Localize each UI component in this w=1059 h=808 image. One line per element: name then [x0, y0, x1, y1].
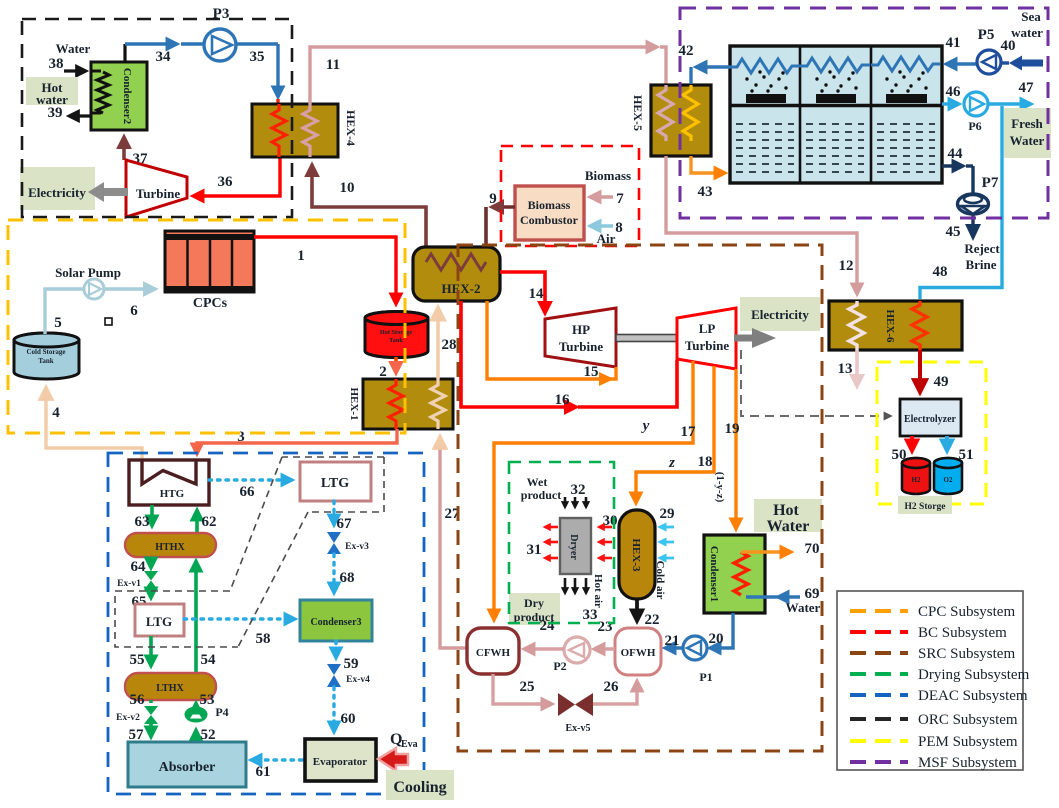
feedwater heater OFWH: [615, 628, 661, 675]
wire 59 + valve Ex-v4: [327, 641, 370, 687]
svg-text:15: 15: [584, 364, 599, 380]
svg-text:water: water: [1011, 25, 1043, 40]
svg-text:29: 29: [660, 506, 675, 522]
svg-text:56: 56: [130, 692, 146, 708]
condenser Condenser2: [91, 44, 147, 130]
svg-text:H2 Storge: H2 Storge: [905, 502, 946, 512]
CPCs collector: [165, 231, 254, 311]
dry product arrows (3 down): [565, 578, 598, 623]
svg-text:Dryer: Dryer: [568, 534, 579, 560]
svg-text:5: 5: [54, 315, 62, 331]
condenser Condenser1: [704, 535, 765, 613]
svg-text:43: 43: [698, 184, 713, 200]
wire 9 (combustor to HEX-2): [486, 191, 515, 260]
wire 25 (CFWH to Ex-v5): [493, 674, 551, 704]
QEva arrow: [378, 731, 418, 771]
wire 16 (HEX-2 to LP turbine): [461, 301, 677, 408]
wire 60 (Ex-v4 to evaporator): [334, 687, 356, 731]
svg-text:67: 67: [337, 516, 353, 532]
svg-text:46: 46: [946, 84, 962, 100]
svg-text:55: 55: [130, 652, 145, 668]
svg-text:Condenser3: Condenser3: [310, 617, 361, 628]
svg-text:6: 6: [130, 303, 138, 319]
svg-text:Solar Pump: Solar Pump: [55, 265, 121, 280]
wire 50 (electrolyzer to H2 tank): [892, 436, 913, 463]
svg-text:P2: P2: [553, 659, 566, 673]
svg-text:CFWH: CFWH: [476, 647, 511, 659]
svg-text:23: 23: [598, 619, 613, 635]
wire 3 (HEX-1 to HTG): [197, 429, 397, 453]
svg-text:31: 31: [527, 542, 542, 558]
stream 7 arrow: [591, 191, 624, 207]
svg-text:HEX-6: HEX-6: [884, 310, 896, 344]
air arrows out of dryer (3 left): [527, 527, 559, 558]
svg-text:Sea: Sea: [1021, 9, 1041, 24]
wire 2 (hot tank to HEX-1): [379, 357, 396, 380]
svg-text:water: water: [36, 92, 68, 107]
shaft: [616, 335, 677, 342]
condenser Condenser3: [300, 600, 372, 641]
HEX-1: [348, 379, 453, 429]
pump P1: [683, 636, 713, 684]
svg-text:9: 9: [489, 191, 497, 207]
svg-text:HEX-5: HEX-5: [631, 95, 645, 131]
wire 52 (absorber to P4): [196, 727, 216, 743]
svg-text:58: 58: [256, 631, 271, 647]
wire 34 (condenser2 to P3): [125, 44, 220, 65]
svg-text:62: 62: [202, 514, 217, 530]
svg-text:Turbine: Turbine: [685, 338, 730, 353]
svg-text:CPCs: CPCs: [193, 296, 228, 311]
wire 17 / y (LP to CFWH): [494, 361, 696, 619]
svg-text:26: 26: [604, 679, 620, 695]
Hot water label box: [26, 77, 78, 107]
svg-text:OFWH: OFWH: [621, 647, 656, 659]
wire 37 (turbine to condenser2): [124, 138, 148, 167]
Electricity label box (ORC): [20, 167, 95, 210]
heat exchanger LTHX: [125, 673, 216, 700]
wire 51 (electrolyzer to O2 tank): [947, 436, 974, 463]
svg-text:35: 35: [250, 49, 265, 65]
svg-text:HEX-4: HEX-4: [344, 110, 358, 146]
svg-text:53: 53: [200, 692, 215, 708]
svg-text:Reject: Reject: [964, 241, 1000, 256]
H2 tank: [902, 458, 930, 494]
wire 15 (HP turbine to HEX-2 reheat): [487, 301, 616, 386]
svg-text:DEAC Subsystem: DEAC Subsystem: [918, 688, 1028, 704]
wire 19 / (1-y-z) (LP to condenser1): [714, 369, 740, 528]
svg-text:Electricity: Electricity: [751, 307, 809, 322]
svg-text:Water: Water: [1010, 133, 1045, 148]
svg-text:1: 1: [297, 248, 305, 264]
HEX-2: [413, 247, 500, 301]
wire 58 (LTG left to condenser3): [184, 619, 294, 647]
svg-text:MSF Subsystem: MSF Subsystem: [918, 755, 1017, 771]
svg-text:HEX-3: HEX-3: [630, 539, 642, 573]
wet product arrows (3 down): [565, 497, 586, 507]
streams 29 cold air arrows: [654, 506, 675, 600]
wire 45 reject brine: [946, 214, 1001, 272]
stream 8 arrow: [591, 220, 623, 236]
svg-text:68: 68: [340, 570, 355, 586]
svg-text:Water: Water: [767, 518, 810, 535]
wire 21 (P1 to OFWH): [665, 633, 684, 649]
gray dashed LTG connection box (right LTG): [282, 457, 384, 512]
svg-text:P6: P6: [968, 119, 981, 133]
dryer: [560, 518, 591, 574]
hot storage tank: [365, 312, 428, 358]
svg-text:36: 36: [218, 174, 234, 190]
HEX-4: [252, 104, 358, 157]
svg-text:10: 10: [340, 180, 355, 196]
wire 64 + valve Ex-v1: [117, 557, 158, 590]
electrolyzer: [900, 399, 961, 436]
svg-text:HTHX: HTHX: [155, 542, 185, 553]
wire 41 (P5 to MSF) + pump P5: [946, 27, 1002, 74]
wire 36 (HEX-4 to turbine): [194, 157, 280, 196]
svg-text:HP: HP: [572, 322, 590, 337]
CPC subsystem border: [8, 220, 405, 433]
svg-text:LP: LP: [699, 321, 716, 336]
svg-text:HEX-2: HEX-2: [442, 281, 481, 296]
wire 57 (Ex-v2 to absorber): [129, 724, 152, 743]
feedwater heater CFWH: [467, 628, 519, 674]
wire 20 (condenser1 to P1): [709, 613, 734, 648]
svg-text:47: 47: [1019, 80, 1035, 96]
svg-text:63: 63: [135, 514, 150, 530]
hot air arrows into dryer (3 left): [592, 513, 618, 608]
svg-text:Ex-v3: Ex-v3: [345, 542, 369, 552]
valve Ex-v5: [558, 693, 593, 734]
svg-text:Cold Storage: Cold Storage: [26, 348, 65, 356]
svg-text:45: 45: [946, 224, 961, 240]
svg-text:44: 44: [948, 146, 964, 162]
wire 23 (OFWH to P2): [595, 619, 615, 649]
svg-text:16: 16: [555, 392, 571, 408]
svg-text:Electrolyzer: Electrolyzer: [904, 414, 957, 425]
svg-text:64: 64: [131, 559, 147, 575]
svg-text:P5: P5: [978, 27, 995, 43]
svg-text:49: 49: [934, 374, 949, 390]
svg-text:CPC Subsystem: CPC Subsystem: [918, 604, 1015, 620]
svg-text:Hot Storage: Hot Storage: [380, 329, 413, 336]
Hot Water label box: [754, 499, 822, 535]
svg-text:product: product: [521, 488, 561, 502]
svg-text:60: 60: [341, 711, 356, 727]
svg-text:Condenser1: Condenser1: [708, 546, 720, 602]
svg-text:28: 28: [442, 337, 457, 353]
svg-text:Water: Water: [786, 600, 821, 615]
svg-text:Biomass: Biomass: [528, 198, 571, 212]
heat exchanger HEX-6: [829, 301, 962, 350]
svg-text:3: 3: [237, 429, 245, 445]
wire 18 / z (LP to HEX-3): [636, 366, 714, 502]
svg-text:Tank: Tank: [389, 337, 403, 344]
svg-text:Cooling: Cooling: [393, 779, 446, 796]
stream 39 arrow: [48, 105, 92, 121]
svg-text:Eva: Eva: [401, 739, 418, 750]
solar pump: [55, 265, 121, 299]
H2 Storge label box: [898, 496, 952, 514]
svg-text:70: 70: [805, 541, 820, 557]
MSF subsystem border: [680, 8, 1048, 218]
pump P3: [204, 6, 278, 61]
wire 54 (LTHX to HTHX): [196, 562, 216, 673]
turbine LP Turbine: [677, 308, 736, 369]
wire 42 (MSF to HEX-5): [679, 43, 731, 84]
wire 55 (LTG to LTHX): [130, 636, 152, 668]
svg-text:Ex-v4: Ex-v4: [346, 675, 370, 685]
wire 14 (HEX-2 to HP turbine): [500, 272, 545, 312]
wire 27 (CFWH to HEX-1): [440, 438, 467, 648]
svg-text:12: 12: [839, 258, 854, 274]
svg-text:Ex-v2: Ex-v2: [116, 713, 140, 723]
svg-text:Brine: Brine: [965, 257, 996, 272]
Dry product label box: [509, 593, 560, 625]
pump P2: [553, 637, 590, 673]
wire 67 + valve Ex-v3: [327, 501, 369, 554]
wire 44 (MSF brine to P7) + pump P7: [942, 146, 999, 214]
svg-text:13: 13: [838, 361, 853, 377]
svg-text:HTG: HTG: [160, 488, 185, 500]
svg-text:P7: P7: [982, 175, 999, 191]
svg-text:P4: P4: [215, 705, 228, 719]
svg-text:Hot air: Hot air: [592, 574, 604, 608]
O2 tank: [934, 458, 962, 494]
svg-text:32: 32: [571, 482, 586, 498]
BC subsystem border: [501, 146, 639, 246]
svg-text:20: 20: [709, 631, 724, 647]
svg-text:38: 38: [49, 56, 64, 72]
svg-text:Ex-v1: Ex-v1: [117, 579, 141, 589]
svg-text:ORC Subsystem: ORC Subsystem: [918, 712, 1018, 728]
electricity arrow (gray, LP turbine): [734, 328, 776, 348]
svg-text:Hot: Hot: [773, 502, 799, 519]
wire 47 (fresh water out): [988, 80, 1034, 104]
svg-text:11: 11: [326, 57, 340, 73]
DEAC subsystem border: [108, 453, 424, 794]
gray dashed LTG connection box (left LTG): [115, 591, 238, 647]
wire 35 (P3 to HEX-4): [250, 44, 279, 104]
svg-text:BC Subsystem: BC Subsystem: [918, 625, 1007, 641]
svg-text:61: 61: [256, 764, 271, 780]
svg-text:33: 33: [583, 607, 598, 623]
wire 48 (fresh water to HEX-6): [920, 106, 1002, 299]
svg-text:34: 34: [156, 49, 172, 65]
SRC subsystem border: [458, 245, 822, 751]
wire electricity dashed (to electrolyzer): [741, 350, 890, 416]
svg-text:48: 48: [933, 264, 948, 280]
svg-text:25: 25: [520, 679, 535, 695]
heat exchanger HEX-3: [619, 510, 655, 599]
wire 43 (HEX-5 to MSF brine heater): [691, 156, 724, 200]
svg-text:H2: H2: [912, 476, 921, 484]
wire 53 (P4 to LTHX): [196, 692, 215, 708]
svg-text:LTG: LTG: [146, 614, 172, 629]
evaporator: [305, 739, 376, 781]
svg-text:18: 18: [698, 454, 713, 470]
svg-text:z: z: [668, 455, 675, 471]
svg-text:41: 41: [946, 35, 961, 51]
turbine HP Turbine: [545, 308, 616, 367]
gray dashed diagonal B: [238, 512, 308, 647]
svg-text:Water: Water: [56, 41, 91, 56]
wire 28 (HEX-1 to HEX-2): [438, 309, 457, 379]
svg-text:7: 7: [616, 191, 624, 207]
sea water inlet arrow 40: [1001, 9, 1044, 71]
svg-text:LTG: LTG: [321, 476, 349, 491]
wire 5 (tank to solar pump to CPC): [45, 289, 154, 334]
svg-text:24: 24: [540, 618, 556, 634]
svg-text:59: 59: [344, 656, 359, 672]
heat exchanger HEX-5: [631, 85, 711, 156]
svg-text:Ex-v5: Ex-v5: [566, 723, 591, 734]
svg-text:19: 19: [725, 421, 740, 437]
wire 65 (Ex-v1 to LTG): [132, 590, 152, 610]
wire 12 (HEX-5 to HEX-6): [666, 156, 857, 293]
wire 11 (HEX-4 to HEX-5): [310, 47, 666, 104]
svg-text:Turbine: Turbine: [559, 339, 604, 354]
svg-text:LTHX: LTHX: [156, 683, 184, 694]
PEM subsystem border: [877, 362, 986, 504]
wire 62 (HTHX to HTG): [197, 511, 217, 533]
wire 46 (MSF distillate to P6) + pump P6: [942, 84, 988, 133]
wire 61 (evaporator to absorber): [252, 760, 302, 780]
svg-text:(1-y-z): (1-y-z): [714, 472, 726, 503]
generator LTG (left): [135, 604, 184, 636]
svg-text:SRC Subsystem: SRC Subsystem: [918, 646, 1015, 662]
pump P4: [185, 705, 229, 722]
svg-text:Absorber: Absorber: [159, 760, 216, 775]
electricity arrow (gray, ORC turbine): [88, 182, 128, 202]
svg-text:Fresh: Fresh: [1011, 116, 1043, 131]
svg-text:21: 21: [665, 633, 680, 649]
svg-text:Turbine: Turbine: [136, 186, 181, 201]
MSF flash unit: [730, 46, 942, 183]
svg-text:39: 39: [48, 105, 63, 121]
wire 1 (CPC to hot tank): [254, 237, 396, 303]
Electricity label box (SRC): [740, 297, 820, 331]
svg-text:17: 17: [681, 424, 697, 440]
wire 49 (HEX-6 to electrolyzer): [920, 350, 949, 391]
svg-text:HEX-1: HEX-1: [348, 388, 360, 421]
wire 69 (water in): [746, 586, 821, 615]
small square marker: [105, 318, 112, 325]
wire 56 + valve Ex-v2: [116, 692, 158, 724]
svg-text:54: 54: [201, 652, 217, 668]
turbine Turbine (ORC): [126, 160, 187, 217]
svg-text:Electricity: Electricity: [28, 185, 86, 200]
Fresh Water label box: [1004, 108, 1051, 158]
svg-text:O2: O2: [944, 476, 953, 484]
svg-text:Combustor: Combustor: [520, 213, 579, 227]
svg-text:Cold air: Cold air: [654, 561, 666, 600]
cold storage tank: [14, 333, 79, 379]
absorber: [128, 742, 246, 787]
wire 4 (HTG to cold tank): [46, 389, 142, 462]
svg-text:4: 4: [52, 405, 60, 421]
svg-text:66: 66: [240, 484, 256, 500]
svg-text:Dry: Dry: [524, 596, 544, 610]
svg-text:14: 14: [529, 286, 545, 302]
label Wet product: [521, 475, 586, 502]
generator HTG: [129, 460, 209, 505]
wire 24 (P2 to CFWH): [525, 618, 564, 649]
svg-text:P1: P1: [699, 670, 712, 684]
biomass combustor: [515, 186, 584, 240]
ORC subsystem border: [22, 19, 292, 217]
svg-text:Tank: Tank: [38, 357, 53, 365]
svg-text:Evaporator: Evaporator: [313, 756, 368, 768]
generator LTG (right): [300, 462, 371, 501]
svg-text:40: 40: [1001, 38, 1016, 54]
gray dashed diagonal A: [230, 457, 282, 591]
wire 70 (condenser1 hot water out): [741, 541, 820, 557]
wire 63 (HTG to HTHX): [135, 505, 153, 530]
stream 38 arrow: [49, 56, 86, 72]
svg-text:Drying Subsystem: Drying Subsystem: [918, 667, 1030, 683]
wire 10 (HEX-2 to HEX-4): [312, 166, 426, 262]
svg-text:y: y: [641, 418, 650, 434]
Cooling label box: [386, 770, 454, 800]
wire 13 (HEX-6 outflow): [838, 350, 866, 390]
svg-text:8: 8: [615, 220, 623, 236]
wire 66 (HTG to LTG right): [209, 480, 291, 500]
wire 26 (Ex-v5 to OFWH): [593, 679, 637, 704]
wire 22 (HEX-3 to OFWH): [637, 599, 660, 628]
svg-text:Condenser2: Condenser2: [121, 68, 133, 125]
Drying subsystem border: [509, 462, 614, 623]
svg-text:Wet: Wet: [527, 475, 548, 489]
svg-text:Biomass: Biomass: [585, 168, 631, 183]
svg-text:22: 22: [645, 612, 660, 628]
wire 68 (Ex-v3 to condenser3): [334, 554, 355, 592]
heat exchanger HTHX: [125, 533, 216, 557]
svg-text:PEM Subsystem: PEM Subsystem: [918, 734, 1018, 750]
